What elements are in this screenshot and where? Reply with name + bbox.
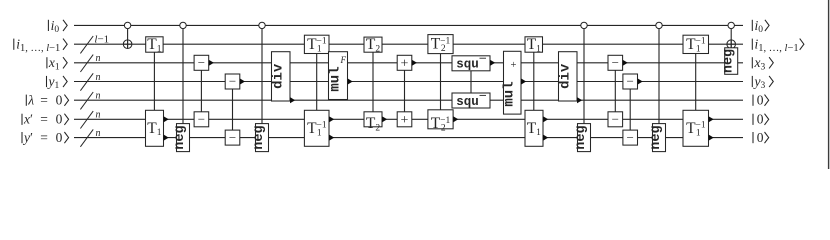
page border right edge [828, 0, 830, 169]
gate T1 on wires 6-7, second [525, 110, 543, 146]
svg-text:F: F [339, 55, 346, 65]
wire, control line neg column A [182, 29, 184, 124]
gate neg on wire 7, column C [578, 124, 591, 152]
gate minus on wire 4, column A [225, 74, 240, 89]
bus slash wire 5 [80, 92, 93, 109]
svg-text:i1, …, l−1: i1, …, l−1 [755, 37, 799, 54]
svg-text:n: n [96, 128, 101, 139]
right label ket i0 [751, 20, 753, 31]
wire, control line neg column C [583, 29, 585, 124]
svg-text:i1, …, l−1: i1, …, l−1 [16, 37, 60, 54]
left label ket lambda=0 [25, 95, 27, 106]
svg-text:−: − [627, 130, 634, 145]
gate plus on wire 3 [397, 55, 412, 70]
wire, control line neg column B [261, 29, 263, 124]
svg-text:squ: squ [456, 57, 479, 71]
wire, connector squ column [470, 71, 472, 93]
svg-text:mul: mul [328, 66, 344, 91]
gate minus on wire 6, column A [194, 112, 209, 127]
gate neg on wire 7, column D [653, 124, 666, 152]
svg-text:T−12.: T−12. [431, 115, 451, 133]
wire, connector T1inv column [316, 54, 318, 111]
svg-text:n: n [96, 91, 101, 102]
gate minus on wire 7, column B [623, 130, 638, 145]
gate minus on wire 7, column A [225, 130, 240, 145]
svg-text:neg: neg [173, 125, 188, 149]
left label ket i0 [47, 20, 49, 31]
gate mul_F on wires 3-5 [329, 52, 348, 100]
right label ket 0 number 1 [752, 95, 754, 106]
gate plus on wire 6 [397, 112, 412, 127]
control (open) on wire 1, neg column C [581, 22, 587, 28]
svg-text:T−11.: T−11. [307, 120, 327, 138]
left label ket xprime=0 [21, 114, 23, 125]
svg-text:0: 0 [757, 93, 764, 108]
gate neg on wire 7, column B [256, 124, 269, 152]
bus slash wire 3 [80, 55, 93, 72]
wire 6 [74, 118, 743, 120]
wire, control line final column [730, 29, 732, 48]
svg-text:0: 0 [757, 130, 764, 145]
gate T1 inverse on wires 6-7, second [683, 110, 709, 146]
svg-text:0: 0 [757, 112, 764, 127]
gate T1 on wire 2 [146, 37, 163, 52]
bus slash wire 7 [80, 129, 93, 146]
svg-text:−: − [612, 112, 619, 127]
svg-text:x1: x1 [48, 55, 60, 72]
svg-text:−: − [612, 55, 619, 70]
svg-text:λ=0: λ=0 [27, 93, 62, 108]
svg-text:T−11.: T−11. [686, 36, 706, 54]
right label ket 0 number 2 [752, 114, 754, 125]
control (open) on wire 1, neg column A [180, 22, 186, 28]
control (open) on wire 1, neg column D [656, 22, 662, 28]
svg-text:y1: y1 [47, 74, 60, 91]
wire, connector plus column [404, 70, 406, 112]
wire, connector minus column B [232, 89, 234, 130]
gate div on wires 3-5, first [272, 52, 291, 101]
left label ket i1...l-1 [13, 39, 15, 50]
wire, connector T1inv column second [695, 54, 697, 111]
svg-text:i0: i0 [755, 18, 764, 35]
svg-text:T−11.: T−11. [686, 120, 706, 138]
wire, control line column 1 [127, 29, 129, 49]
gate minus on wire 4, column B [623, 74, 638, 89]
wire, connector minus column C [614, 70, 616, 112]
gate T1 inverse on wires 6-7, first [304, 110, 329, 146]
svg-text:neg: neg [252, 125, 267, 149]
wire, connector minus column A [200, 70, 202, 112]
left label ket y1 [46, 76, 48, 87]
control (open) on wire 1, neg column B [259, 22, 265, 28]
gate minus on wire 3, column A [194, 55, 209, 70]
wire, connector T1 column second [533, 52, 535, 110]
wire 2 [74, 43, 743, 45]
wire 4 [74, 81, 743, 83]
gate squ on wire 3 [452, 56, 490, 71]
svg-text:+: + [511, 60, 517, 71]
gate div on wires 3-5, second [559, 52, 578, 101]
svg-text:−: − [198, 112, 205, 127]
bus slash wire 4 [80, 73, 93, 90]
wire 1 [74, 24, 743, 26]
svg-text:n: n [96, 110, 101, 121]
svg-text:x′=0: x′=0 [23, 112, 63, 127]
gate T2 on wire 6 [364, 112, 382, 127]
left label ket x1 [46, 57, 48, 68]
svg-text:y3: y3 [753, 74, 766, 91]
right label ket 0 number 3 [752, 132, 754, 143]
CNOT target on wire 2, final column [727, 40, 736, 49]
svg-text:i0: i0 [51, 18, 60, 35]
wire, control line neg column D [658, 29, 660, 124]
gate mul plus on wires 3-5 [504, 51, 522, 114]
svg-text:−: − [198, 55, 205, 70]
gate neg on wire 3, final column [725, 48, 738, 75]
wire 5 [74, 99, 743, 101]
control (open) on wire 1, column final [728, 22, 734, 28]
left label ket yprime=0 [21, 132, 23, 143]
bus slash wire 6 [80, 111, 93, 128]
svg-text:div: div [271, 63, 287, 89]
svg-text:+: + [401, 56, 409, 71]
svg-text:−: − [627, 74, 634, 89]
control (open) on wire 1, column 1 [124, 22, 130, 28]
wire, connector T2inv column [440, 54, 442, 110]
svg-text:T−11.: T−11. [307, 36, 327, 54]
svg-text:+: + [401, 113, 409, 128]
svg-text:neg: neg [721, 49, 736, 73]
gate neg on wire 7, column A [177, 124, 190, 152]
gate T1 on wire 2, second [525, 37, 543, 52]
gate T2 inverse on wire 6 [428, 110, 453, 129]
gate T1 inverse on wire 2, first [304, 35, 329, 53]
gate T1 on wires 6-7 [146, 110, 164, 146]
svg-text:neg: neg [574, 125, 589, 149]
svg-text:n: n [96, 72, 101, 83]
gate minus on wire 6, column B [608, 112, 623, 127]
svg-text:l−1: l−1 [94, 33, 109, 45]
gate T2 on wire 2 [364, 37, 382, 52]
gate squ on wire 5 [452, 93, 490, 108]
wire, connector T2 column [372, 52, 374, 112]
svg-text:−: − [229, 130, 236, 145]
wire, connector T1 column [153, 52, 155, 110]
gate T1 inverse on wire 2, second [683, 35, 709, 53]
quantum circuit: controlled elliptic-curve point addition [0, 0, 830, 169]
svg-text:mul: mul [501, 81, 517, 106]
svg-text:div: div [558, 63, 574, 89]
svg-text:neg: neg [649, 125, 664, 149]
CNOT target on wire 2, column 1 [123, 40, 132, 49]
svg-text:T−12.: T−12. [431, 36, 451, 54]
svg-text:n: n [96, 53, 101, 64]
wire 7 [74, 137, 743, 139]
svg-text:squ: squ [456, 95, 479, 109]
right label ket y3 [751, 76, 753, 87]
svg-text:y′=0: y′=0 [22, 130, 63, 145]
right label ket x3 [751, 57, 753, 68]
right label ket i1...l-1 [751, 39, 753, 50]
svg-text:x3: x3 [754, 55, 766, 72]
gate minus on wire 3, column B [608, 55, 623, 70]
gate T2 inverse on wire 2 [428, 35, 453, 54]
wire, connector minus column D [629, 89, 631, 130]
svg-text:−: − [229, 74, 236, 89]
bus slash wire 2 [80, 36, 93, 53]
wire 3 [74, 62, 743, 64]
